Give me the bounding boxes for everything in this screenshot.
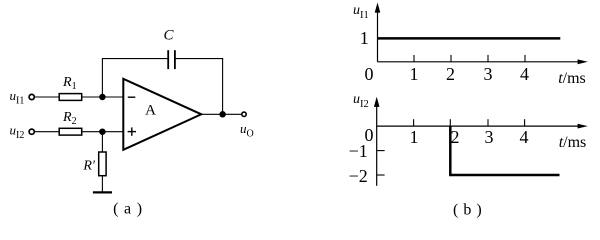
terminal u_I1 (29, 94, 34, 99)
svg-text:t/ms: t/ms (558, 70, 586, 87)
resistor R2 (59, 128, 81, 135)
op-amp minus sign (128, 96, 136, 98)
waveform u_I1 value 1 (378, 37, 561, 40)
op-amp U1 (123, 79, 201, 150)
resistor R' (99, 152, 106, 176)
svg-text:0: 0 (365, 64, 374, 84)
bottom graph tick -2 (377, 174, 385, 176)
bottom graph tick 2 (449, 119, 451, 126)
bottom graph tick 3 (487, 119, 489, 126)
wire feedback top right (175, 58, 223, 60)
bottom graph y-axis (374, 97, 380, 186)
wire op-amp output (201, 113, 241, 115)
op-amp plus sign (128, 127, 136, 135)
wire node A up to feedback (101, 59, 103, 97)
top graph tick 1 (413, 55, 415, 62)
svg-text:2: 2 (451, 127, 460, 147)
top graph x-axis (378, 59, 588, 64)
node output junction (219, 111, 226, 118)
bottom graph tick 1 (413, 119, 415, 126)
top graph y-axis (375, 3, 381, 62)
svg-text:1: 1 (360, 28, 369, 48)
top graph tick 3 (487, 55, 489, 62)
wire feedback down to output (222, 59, 224, 115)
wire feedback top left (102, 58, 168, 60)
svg-text:2: 2 (446, 64, 455, 84)
svg-text:3: 3 (485, 127, 494, 147)
wire u_I1 to R1 (35, 96, 60, 98)
node B (noninverting input junction) (99, 128, 106, 135)
svg-text:C: C (163, 28, 174, 44)
wire node B down to R' (101, 132, 103, 152)
bottom graph x-axis (377, 124, 588, 129)
node A (inverting input junction) (99, 94, 106, 101)
svg-text:( a ): ( a ) (113, 201, 143, 218)
svg-text:4: 4 (520, 64, 529, 84)
svg-text:3: 3 (484, 64, 493, 84)
bottom graph tick 4 (524, 119, 526, 126)
terminal u_I2 (29, 129, 34, 134)
svg-text:1: 1 (410, 127, 419, 147)
terminal u_O (242, 112, 246, 116)
waveform u_I2 step down at t=2 (449, 126, 452, 175)
svg-text:R′: R′ (82, 159, 96, 174)
wire u_I2 to R2 (35, 131, 60, 133)
top graph tick 2 (450, 55, 452, 62)
top graph tick 4 (524, 55, 526, 62)
svg-text:−2: −2 (349, 166, 368, 186)
svg-text:4: 4 (520, 127, 529, 147)
svg-text:( b ): ( b ) (453, 202, 482, 219)
resistor R1 (59, 94, 81, 101)
svg-text:A: A (145, 103, 156, 119)
waveform u_I2 value -2 (449, 174, 559, 177)
bottom graph tick -1 (377, 150, 385, 152)
wire R' to ground (101, 176, 103, 193)
ground (93, 191, 112, 193)
capacitor C (168, 50, 175, 69)
svg-text:t/ms: t/ms (559, 134, 587, 151)
svg-text:1: 1 (410, 64, 419, 84)
svg-text:−1: −1 (349, 141, 368, 161)
wire R1 to inverting input (82, 96, 124, 98)
wire R2 to noninverting input (82, 131, 124, 133)
